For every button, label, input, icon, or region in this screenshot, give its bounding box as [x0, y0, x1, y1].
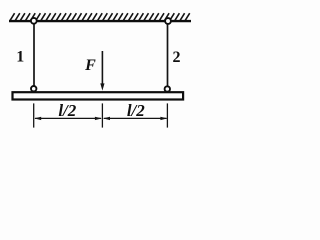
- svg-text:l/2: l/2: [127, 101, 145, 120]
- dimension line left l/2: [34, 117, 102, 120]
- rod 2 wire: [167, 23, 169, 86]
- extension line right: [166, 103, 168, 127]
- extension line left: [33, 103, 35, 127]
- svg-text:1: 1: [16, 49, 24, 66]
- rod 1 wire: [33, 23, 35, 86]
- dimension line right l/2: [103, 117, 167, 120]
- svg-text:2: 2: [173, 49, 181, 66]
- ceiling line: [9, 20, 191, 22]
- ceiling hatching: [10, 13, 190, 20]
- svg-text:F: F: [84, 57, 96, 74]
- svg-text:l/2: l/2: [58, 101, 76, 120]
- force F arrow: [100, 51, 104, 91]
- extension line middle: [101, 103, 103, 127]
- beam: [13, 92, 184, 99]
- pin D bottom right: [165, 86, 170, 91]
- pin C bottom left: [31, 86, 36, 91]
- pin B top right: [165, 18, 171, 24]
- pin A top left: [31, 18, 37, 24]
